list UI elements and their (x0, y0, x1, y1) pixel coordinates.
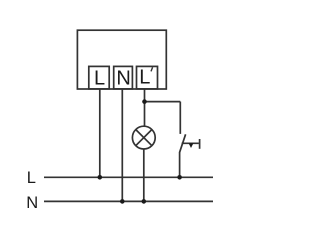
svg-text:L: L (139, 67, 150, 89)
svg-text:L: L (94, 67, 105, 89)
svg-text:N: N (116, 67, 130, 89)
svg-text:N: N (26, 194, 38, 212)
svg-text:L: L (27, 169, 36, 187)
